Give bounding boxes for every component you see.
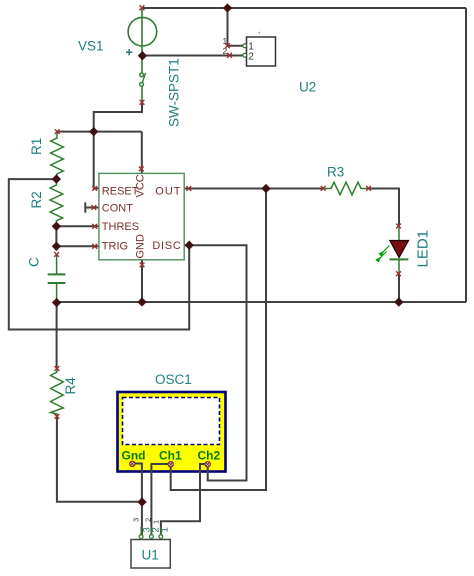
stray dot near U2: [259, 32, 261, 34]
svg-text:R1: R1: [29, 138, 44, 155]
junction DISC: [185, 241, 194, 250]
wire CONT pin stub: [85, 202, 99, 212]
x R4 top: [55, 366, 60, 371]
junction TRIG: [52, 242, 61, 251]
wire U2 pin1 drop from top rail: [228, 8, 244, 46]
capacitor C: [48, 255, 66, 303]
x CONT pin: [92, 205, 97, 210]
junction LED / rail: [394, 297, 403, 306]
x VCC pin: [139, 167, 144, 172]
svg-text:R2: R2: [29, 191, 44, 208]
red x terminal marks: [54, 5, 401, 419]
svg-text:SW-SPST1: SW-SPST1: [167, 58, 182, 127]
x R3 left: [321, 186, 326, 191]
x U2 pin2 wire: [227, 53, 232, 58]
switch SW-SPST1: [140, 57, 146, 102]
wire R2 bottom to TRIG junction: [55, 226, 57, 246]
svg-text:OSC1: OSC1: [155, 372, 192, 387]
wire OUT pin to R3: [184, 188, 323, 190]
svg-text:1: 1: [152, 520, 161, 524]
wire VCC pin drop: [141, 132, 143, 174]
svg-text:VS1: VS1: [78, 39, 104, 54]
wire scope Ch1 to U1 pin2: [151, 464, 168, 535]
junction RESET branch: [89, 127, 98, 136]
oscilloscope OSC1 body: [118, 392, 226, 472]
svg-text:2: 2: [248, 52, 254, 63]
component U1: [131, 527, 170, 568]
x TRIG pin: [92, 244, 97, 249]
wire LED bottom to rail: [398, 274, 400, 302]
wire DISC pin to drop: [184, 245, 246, 480]
junction R2/THRES: [52, 222, 61, 231]
x RESET pin: [92, 186, 97, 191]
resistor R1: [51, 132, 64, 180]
svg-text:VCC: VCC: [135, 174, 147, 197]
switch/relay box U2: [243, 37, 276, 66]
svg-text:Gnd: Gnd: [122, 449, 146, 463]
x R3 right: [366, 186, 371, 191]
resistor R2: [50, 179, 63, 226]
x VS1 top: [139, 5, 144, 10]
x C top: [54, 252, 59, 257]
wire TRIG pin: [56, 245, 99, 247]
junction C bottom / rail: [52, 298, 61, 307]
x OUT pin: [186, 186, 191, 191]
svg-text:OUT: OUT: [155, 185, 181, 197]
svg-text:R3: R3: [327, 165, 344, 180]
resistor R4: [51, 369, 64, 417]
svg-text:3: 3: [132, 518, 141, 522]
junction OUT: [261, 184, 270, 193]
wire RESET pin: [94, 132, 99, 189]
wire scope Ch2 to U1 pin1: [161, 464, 206, 535]
svg-text:RESET: RESET: [102, 186, 139, 198]
x LED bottom: [396, 271, 401, 276]
x R4 bottom: [55, 414, 60, 419]
junction R4 / scope gnd / U1: [137, 497, 146, 506]
svg-text:TRIG: TRIG: [102, 240, 128, 252]
svg-text:R4: R4: [63, 377, 78, 395]
junction R1/R2: [52, 174, 61, 183]
svg-text:THRES: THRES: [102, 221, 139, 233]
junction top rail / U2 drop: [223, 3, 232, 12]
x U2 pin1 wire: [225, 43, 230, 48]
junction GND / rail: [137, 297, 146, 306]
voltage source VS1: [126, 8, 157, 56]
resistor R3: [323, 182, 368, 195]
svg-text:Ch2: Ch2: [198, 449, 221, 463]
wire OUT drop to Ch1: [171, 189, 266, 491]
wire right side vertical: [465, 8, 467, 302]
wire C bottom to R4 top: [56, 302, 58, 369]
x LED top: [396, 224, 401, 229]
svg-text:LED1: LED1: [415, 230, 432, 268]
wire switch bottom to RESET branch: [94, 102, 142, 132]
scope terminal labels: [122, 449, 221, 463]
wire top rail from VS1 to right side: [142, 7, 466, 9]
555 timer IC box: [99, 173, 184, 259]
wire scope Gnd to U1 pin3: [135, 464, 142, 535]
svg-text:Ch1: Ch1: [159, 449, 182, 463]
wire R3 right to LED top: [369, 189, 400, 227]
scope terminal Gnd: [130, 461, 135, 466]
wire THRES pin: [56, 225, 99, 227]
svg-text:C: C: [27, 257, 42, 267]
scope terminal Ch2: [205, 462, 210, 467]
svg-text:CONT: CONT: [102, 202, 133, 214]
svg-text:1: 1: [159, 527, 170, 532]
wire VCC feed horizontal: [57, 131, 142, 133]
scope terminal Ch1: [168, 462, 173, 467]
x R1 top: [55, 129, 60, 134]
x switch bottom: [140, 100, 145, 105]
LED LED1: [378, 226, 409, 274]
svg-text:GND: GND: [135, 234, 147, 259]
wire bottom ground rail: [57, 301, 466, 303]
svg-text:DISC: DISC: [152, 240, 181, 252]
wire feedback R1R2 to DISC: [9, 179, 189, 329]
wire VS1 plus to U2 pin2: [142, 55, 243, 57]
x THRES pin: [92, 224, 97, 229]
x GND pin: [140, 263, 145, 268]
junction VS1 plus: [138, 51, 147, 60]
wire GND pin drop: [141, 260, 143, 302]
svg-text:U2: U2: [299, 80, 316, 95]
wire R4 bottom to gnd junction: [57, 416, 142, 501]
svg-text:U1: U1: [142, 548, 159, 563]
oscilloscope screen: [123, 398, 220, 445]
